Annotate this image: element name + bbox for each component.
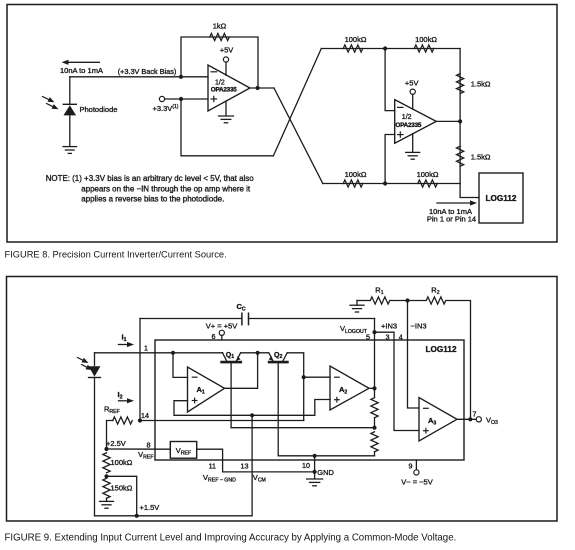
svg-text:OPA2335: OPA2335 — [211, 86, 237, 93]
svg-text:−IN3: −IN3 — [411, 322, 427, 331]
svg-text:+5V: +5V — [220, 45, 234, 54]
svg-text:(+3.3V Back Bias): (+3.3V Back Bias) — [118, 67, 177, 76]
svg-text:appears on the −IN through the: appears on the −IN through the op amp wh… — [81, 184, 251, 193]
svg-text:applies a reverse bias to the: applies a reverse bias to the photodiode… — [81, 195, 224, 204]
svg-text:10nA to 1mA: 10nA to 1mA — [60, 66, 103, 75]
svg-text:+3.3V(1): +3.3V(1) — [153, 104, 179, 113]
svg-text:1kΩ: 1kΩ — [213, 21, 227, 30]
svg-text:I1: I1 — [122, 332, 127, 343]
svg-text:+5V: +5V — [405, 78, 419, 87]
svg-text:VREF: VREF — [138, 450, 153, 461]
svg-text:+2.5V: +2.5V — [106, 439, 126, 448]
svg-text:V− = −5V: V− = −5V — [401, 477, 432, 486]
svg-text:LOG112: LOG112 — [486, 194, 517, 203]
svg-text:NOTE: (1) +3.3V bias is an arb: NOTE: (1) +3.3V bias is an arbitrary dc … — [46, 174, 255, 183]
svg-text:150kΩ: 150kΩ — [111, 483, 133, 492]
svg-text:1/2: 1/2 — [215, 79, 225, 86]
svg-text:3: 3 — [386, 333, 390, 341]
svg-text:FIGURE 8. Precision Current In: FIGURE 8. Precision Current Inverter/Cur… — [5, 249, 227, 259]
svg-text:VO3: VO3 — [486, 415, 498, 426]
svg-text:FIGURE 9. Extending Input Curr: FIGURE 9. Extending Input Current Level … — [5, 532, 457, 543]
svg-text:A2: A2 — [339, 385, 347, 396]
svg-text:1/2: 1/2 — [402, 114, 412, 121]
svg-text:4: 4 — [399, 333, 403, 341]
svg-text:Q1: Q1 — [226, 352, 234, 360]
svg-text:14: 14 — [141, 412, 149, 420]
svg-text:100kΩ: 100kΩ — [417, 170, 439, 179]
svg-text:100kΩ: 100kΩ — [345, 35, 367, 44]
svg-text:1.5kΩ: 1.5kΩ — [471, 152, 491, 161]
svg-text:Pin 1 or Pin 14: Pin 1 or Pin 14 — [427, 214, 476, 223]
svg-text:CC: CC — [237, 302, 246, 313]
svg-text:100kΩ: 100kΩ — [415, 35, 437, 44]
svg-text:VREF: VREF — [176, 446, 191, 457]
svg-text:8: 8 — [147, 442, 151, 450]
svg-text:1: 1 — [144, 344, 148, 352]
svg-text:100kΩ: 100kΩ — [111, 458, 133, 467]
svg-text:GND: GND — [317, 468, 334, 477]
svg-text:VCM: VCM — [253, 473, 266, 484]
svg-text:6: 6 — [212, 333, 216, 341]
svg-text:11: 11 — [209, 463, 216, 471]
svg-text:9: 9 — [409, 462, 413, 470]
svg-text:OPA2335: OPA2335 — [395, 122, 421, 129]
svg-text:+IN3: +IN3 — [381, 322, 397, 331]
svg-text:5: 5 — [366, 333, 370, 341]
svg-text:V+ = +5V: V+ = +5V — [206, 322, 237, 331]
svg-text:VLOGOUT: VLOGOUT — [340, 324, 368, 335]
svg-text:R1: R1 — [375, 285, 383, 296]
svg-text:1.5kΩ: 1.5kΩ — [471, 80, 491, 89]
svg-text:13: 13 — [241, 463, 249, 471]
svg-text:100kΩ: 100kΩ — [345, 170, 367, 179]
svg-text:+1.5V: +1.5V — [140, 503, 160, 512]
svg-text:Q2: Q2 — [274, 352, 282, 360]
svg-text:Photodiode: Photodiode — [80, 105, 118, 114]
svg-text:VREF − GND: VREF − GND — [203, 473, 236, 484]
svg-text:7: 7 — [473, 410, 477, 418]
svg-text:I2: I2 — [118, 390, 123, 401]
svg-text:LOG112: LOG112 — [426, 345, 457, 354]
svg-text:RREF: RREF — [104, 405, 120, 416]
svg-text:A3: A3 — [428, 416, 436, 427]
svg-text:10: 10 — [302, 462, 310, 470]
svg-text:A1: A1 — [197, 385, 205, 396]
svg-text:R2: R2 — [431, 285, 439, 296]
